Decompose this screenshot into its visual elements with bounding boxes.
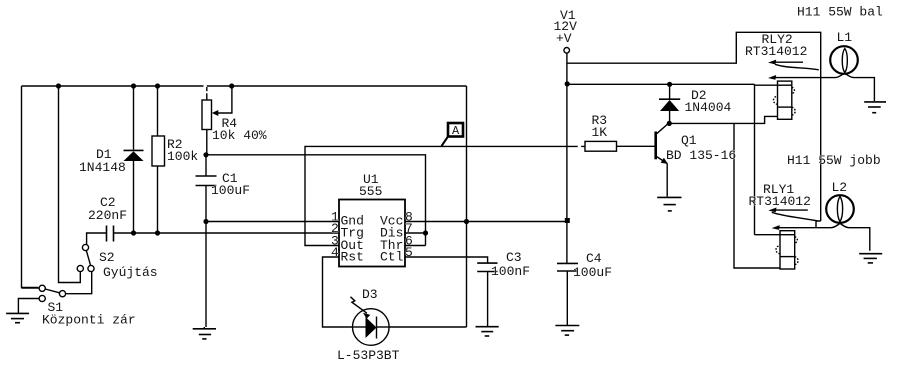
svg-text:RT314012: RT314012	[745, 44, 807, 59]
ground under C1	[193, 327, 216, 339]
wire RLY1 vertical step to contact	[816, 221, 821, 228]
svg-text:D3: D3	[362, 287, 378, 302]
svg-text:100k: 100k	[167, 149, 198, 164]
svg-text:1N4148: 1N4148	[79, 160, 126, 175]
relay RLY2 NO contact arrow	[768, 75, 821, 80]
wire +12V top bus left segment	[22, 85, 204, 87]
relay RLY1 NO contact arrow	[772, 225, 816, 230]
wire Rst pin4 to D3	[323, 257, 353, 327]
wire collector node to RLY2 coil bottom	[669, 116, 777, 123]
potentiometer R4	[202, 86, 232, 155]
wire +12V down to RLY1 coil top	[754, 84, 756, 234]
wire +12V rail vertical right (bus corner down to D3 wire)	[466, 86, 468, 327]
wire S1 common to S2 right throw	[66, 272, 92, 294]
svg-text:1K: 1K	[592, 125, 608, 140]
wire V1 vertical down to C4	[566, 53, 568, 263]
wire S1 upper throw to left vertical	[22, 287, 40, 289]
relay RLY1 coil	[776, 231, 798, 269]
relay RLY2 NC contact	[768, 60, 803, 65]
wire S1 lower throw to ground	[18, 299, 39, 314]
svg-text:10k 40%: 10k 40%	[212, 128, 267, 143]
relay RLY2 coil	[774, 81, 796, 119]
wire collector node down to RLY1 coil bottom	[734, 123, 780, 268]
ground under C3	[476, 327, 499, 336]
svg-text:100uF: 100uF	[573, 265, 612, 280]
junction D2/collector	[667, 121, 672, 126]
switch S2	[77, 244, 94, 271]
junction bus/R4 wiper	[229, 83, 234, 88]
junction D1/Trg	[131, 230, 136, 235]
wire C1 node down to ground	[205, 222, 207, 327]
ground under S1	[6, 313, 29, 322]
junction Vcc/V1 vertical (square)	[565, 218, 570, 223]
wire R2 top to bus	[157, 86, 159, 136]
relay RLY1 NC contact	[768, 208, 808, 213]
junction +12V/D2	[667, 82, 672, 87]
junction Vcc/+12V rail	[464, 219, 469, 224]
wire threshold node to Dis/Thr riser	[206, 155, 426, 246]
junction R4/C1/threshold node	[203, 152, 208, 157]
wire Out pin3 riser to net A	[305, 146, 585, 245]
capacitor C1	[196, 155, 217, 222]
wire R2 bottom to Trg line	[157, 166, 159, 233]
junction bus/D1	[131, 83, 136, 88]
capacitor C3	[477, 263, 497, 326]
svg-text:L2: L2	[832, 180, 848, 195]
junction bus/R2	[155, 83, 160, 88]
relay RLY2 blade	[775, 64, 819, 70]
svg-text:C4: C4	[586, 251, 602, 266]
wire +12V to D2 and RLY2 coil	[567, 83, 754, 85]
capacitor C2	[87, 226, 114, 245]
junction R2/Trg	[155, 230, 160, 235]
svg-text:S2: S2	[99, 250, 115, 265]
svg-text:BD 135-16: BD 135-16	[666, 148, 736, 163]
svg-text:L1: L1	[837, 30, 853, 45]
wire +12V top bus right segment	[207, 85, 467, 87]
wire D3 to +12V rail	[389, 326, 467, 328]
junction Dis/Thr	[423, 230, 428, 235]
ground under Q1 emitter	[657, 197, 681, 211]
svg-text:H11 55W jobb: H11 55W jobb	[787, 153, 881, 168]
wire Dis pin7 to riser	[405, 232, 426, 234]
wire RLY2 contact to L1	[821, 73, 875, 101]
lamp L1	[830, 46, 858, 74]
transistor Q1	[656, 123, 669, 197]
resistor R3	[585, 141, 617, 151]
svg-text:5: 5	[405, 245, 413, 260]
svg-text:Rst: Rst	[341, 250, 364, 265]
svg-text:220nF: 220nF	[88, 208, 127, 223]
wire R3 to Q1 base	[617, 145, 655, 147]
svg-text:L-53P3BT: L-53P3BT	[337, 348, 400, 363]
wire pin1 Gnd to C1 node	[206, 221, 339, 223]
wire RLY1 coil top entry	[755, 234, 781, 236]
diode D1	[124, 150, 144, 233]
svg-text:C3: C3	[506, 250, 522, 265]
svg-text:RT314012: RT314012	[749, 194, 811, 209]
lamp L2	[826, 195, 854, 223]
svg-text:+V: +V	[556, 31, 572, 46]
wire left vertical bus-end down to S1	[22, 86, 39, 288]
svg-text:100uF: 100uF	[211, 183, 250, 198]
wire Thr pin6 to riser	[405, 245, 426, 247]
svg-text:H11 55W bal: H11 55W bal	[797, 5, 883, 20]
wire Ctl pin5 to C3	[405, 257, 488, 263]
svg-text:Központi zár: Központi zár	[42, 313, 136, 328]
wire RLY1 contact to L2	[816, 223, 870, 250]
switch S1	[39, 285, 65, 301]
relay RLY1 blade	[772, 212, 818, 221]
ground under L2	[859, 254, 882, 263]
net label A	[442, 123, 464, 146]
ground under C4	[555, 326, 579, 336]
wire S2 left throw to bus	[59, 86, 81, 283]
wire V1 to relay commons (upper route)	[567, 32, 821, 221]
svg-text:100nF: 100nF	[491, 264, 530, 279]
wire Trg line C2 to U1 pin2	[114, 232, 340, 234]
junction V1/+12V horizontal	[565, 81, 570, 86]
IC U1 555 body	[339, 200, 405, 267]
svg-text:Q1: Q1	[681, 133, 697, 148]
svg-text:555: 555	[359, 184, 382, 199]
ground under L1	[864, 102, 886, 113]
supply V1	[564, 48, 570, 54]
svg-text:Ctl: Ctl	[380, 250, 404, 265]
svg-text:Gyújtás: Gyújtás	[103, 265, 158, 280]
svg-text:A: A	[452, 124, 460, 138]
capacitor C4	[557, 263, 578, 325]
svg-text:4: 4	[331, 245, 339, 260]
photo-LED D3	[351, 297, 390, 346]
resistor R2	[152, 136, 165, 166]
junction C1/pin1	[203, 219, 208, 224]
svg-text:1N4004: 1N4004	[685, 100, 732, 115]
junction bus/S2	[56, 83, 61, 88]
wire D1 cathode to bus	[133, 86, 135, 150]
diode D2	[659, 84, 680, 123]
wire +12V into coil top	[755, 84, 778, 86]
wire Vcc pin8 to supply vertical	[405, 221, 567, 223]
